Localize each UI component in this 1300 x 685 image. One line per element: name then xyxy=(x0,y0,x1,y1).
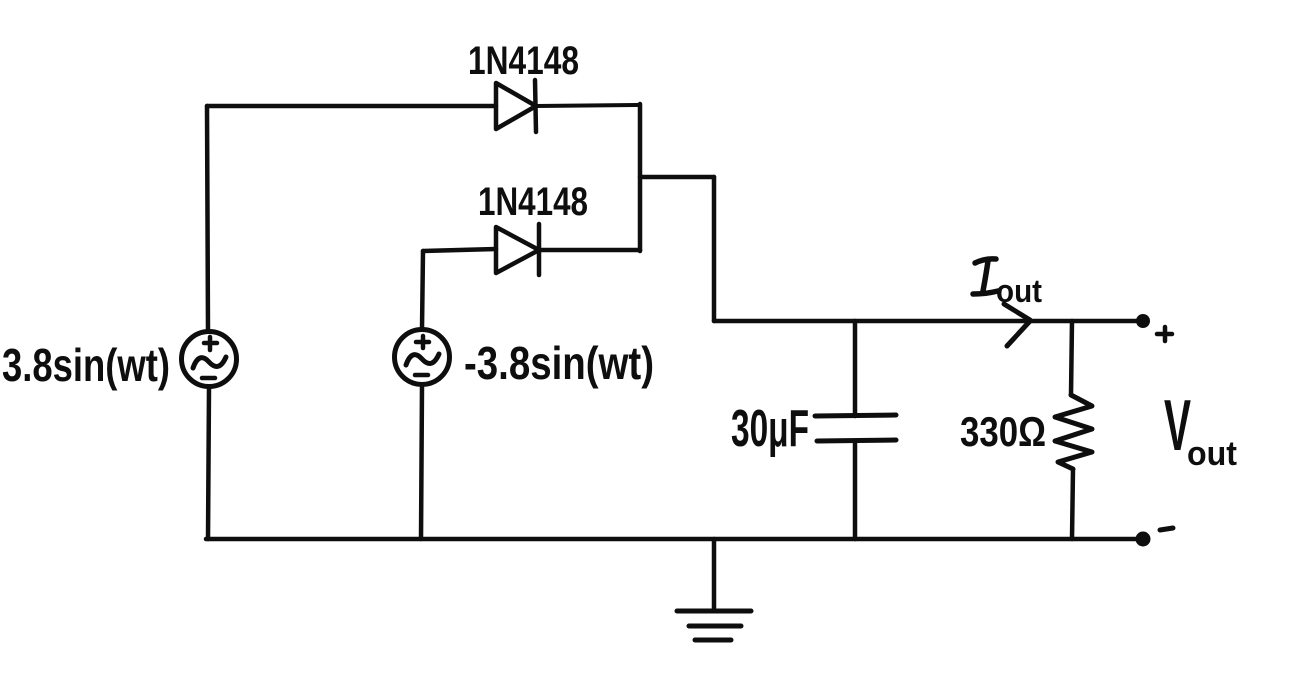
node dot + terminal xyxy=(1136,314,1150,328)
wire branch from bus to output node xyxy=(640,175,714,180)
minus terminal label xyxy=(1160,528,1173,530)
node dot - terminal xyxy=(1136,532,1151,547)
ground bar 2 xyxy=(689,624,741,629)
plus terminal label xyxy=(1157,327,1172,341)
svg-text:out: out xyxy=(1187,435,1237,473)
source V1 minus sign xyxy=(202,376,215,381)
wire capacitor top lead xyxy=(853,321,858,416)
svg-text:1N4148: 1N4148 xyxy=(468,39,579,83)
wire top horizontal from source V1 to diode D1 anode xyxy=(207,104,496,109)
svg-text:30μF: 30μF xyxy=(731,400,809,458)
label I out xyxy=(973,259,998,294)
ground bar 1 xyxy=(677,609,751,614)
diode D1 triangle xyxy=(496,83,536,129)
wire top output rail xyxy=(714,319,1142,324)
wire vertical down to top output rail xyxy=(712,177,717,321)
source V2 circle xyxy=(395,330,450,385)
svg-text:1N4148: 1N4148 xyxy=(478,180,588,224)
wire from source V2 top to diode D2 anode xyxy=(423,249,496,251)
current arrow on output rail xyxy=(1004,304,1030,346)
capacitor C1 top plate xyxy=(815,415,896,416)
svg-text:out: out xyxy=(996,273,1042,309)
source V2 minus sign xyxy=(415,373,428,378)
svg-text:-3.8sin(wt): -3.8sin(wt) xyxy=(464,337,654,389)
source V2 sine wave xyxy=(406,354,439,365)
source V1 plus sign xyxy=(204,337,217,350)
source V1 sine wave xyxy=(193,357,226,368)
wire bottom rail xyxy=(206,537,1142,542)
wire from source V2 bottom to bottom rail xyxy=(421,386,422,539)
wire left vertical from top rail down to source V1 xyxy=(207,106,208,331)
source V1 circle xyxy=(182,332,237,387)
capacitor C1 bottom plate xyxy=(817,440,896,441)
wire capacitor bottom lead xyxy=(853,441,858,539)
diode D2 cathode bar xyxy=(537,224,542,275)
wire D2 cathode to vertical bus xyxy=(539,248,640,253)
diode D2 triangle xyxy=(496,227,539,273)
wire from source V1 bottom to bottom rail xyxy=(208,387,209,539)
svg-text:330Ω: 330Ω xyxy=(960,408,1046,455)
resistor R1 zigzag xyxy=(1055,395,1092,469)
wire resistor bottom lead xyxy=(1072,469,1073,539)
wire D1 cathode to right vertical bus xyxy=(536,105,640,106)
diode D1 cathode bar xyxy=(535,80,536,132)
wire from D2 anode wire down to source V2 xyxy=(422,251,423,329)
wire ground stem xyxy=(712,539,717,611)
svg-text:3.8sin(wt): 3.8sin(wt) xyxy=(2,339,170,391)
wire vertical bus joining both diode cathodes xyxy=(638,104,643,251)
source V2 plus sign xyxy=(416,336,429,348)
ground bar 3 xyxy=(695,638,731,643)
wire resistor top lead xyxy=(1071,321,1072,395)
